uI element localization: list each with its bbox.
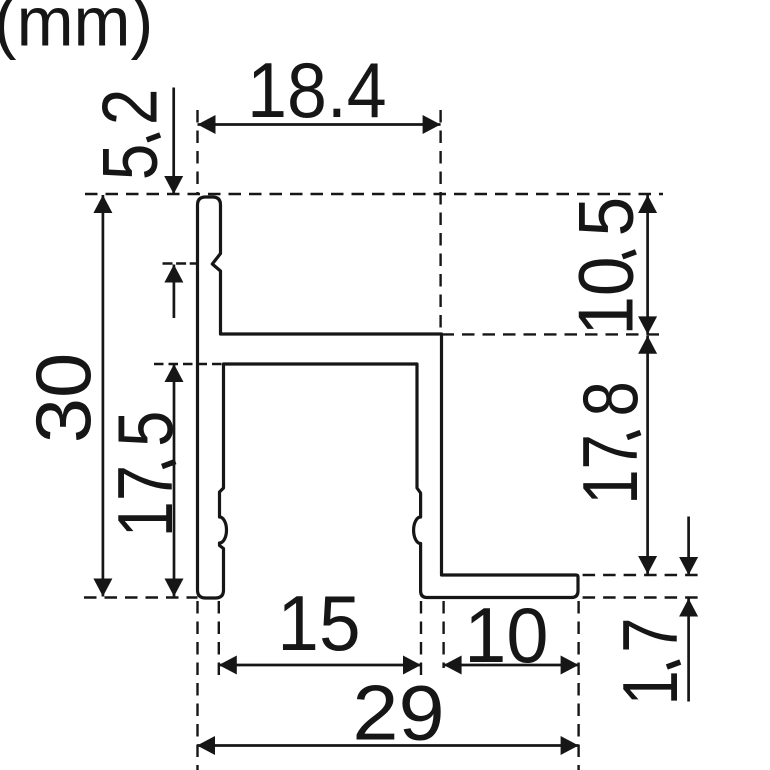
svg-text:30: 30 — [19, 353, 107, 444]
svg-text:(mm): (mm) — [0, 0, 153, 61]
svg-text:15: 15 — [277, 579, 360, 667]
svg-text:10: 10 — [464, 591, 548, 679]
svg-text:18.4: 18.4 — [247, 46, 387, 134]
svg-text:29: 29 — [352, 669, 444, 757]
svg-text:17 8: 17 8 — [566, 381, 654, 505]
svg-text:1 7: 1 7 — [606, 618, 694, 706]
svg-text:17 5: 17 5 — [101, 411, 189, 538]
svg-text:5 2: 5 2 — [86, 89, 174, 181]
svg-text:10 5: 10 5 — [561, 197, 649, 336]
